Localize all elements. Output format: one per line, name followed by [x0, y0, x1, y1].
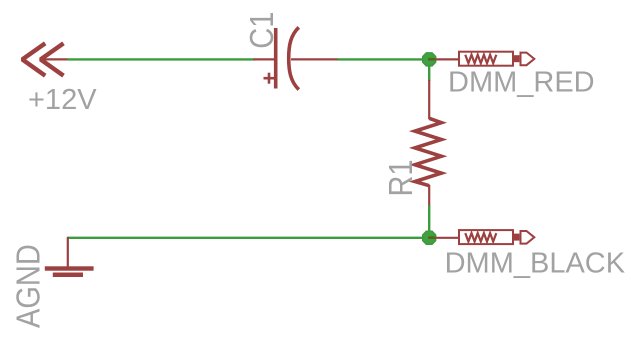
connector DMM_RED	[459, 52, 534, 66]
svg-text:R1: R1	[382, 159, 419, 196]
pin wire to DMM_BLACK	[436, 237, 459, 239]
svg-text:AGND: AGND	[10, 244, 47, 328]
wire net N$1 left segment	[67, 58, 255, 60]
wire net N$1 right segment	[338, 58, 425, 60]
wire net GND segment	[68, 237, 424, 239]
junction node top	[423, 53, 436, 66]
connector DMM_BLACK	[459, 230, 534, 244]
wire junction to resistor top	[428, 64, 430, 81]
wire resistor bottom to junction	[428, 206, 430, 234]
resistor R1	[415, 80, 442, 207]
ground symbol AGND	[45, 237, 94, 277]
svg-text:C1: C1	[243, 12, 280, 49]
svg-text:+12V: +12V	[28, 84, 97, 116]
capacitor C1	[254, 27, 339, 89]
svg-text:DMM_RED: DMM_RED	[448, 66, 595, 98]
svg-text:DMM_BLACK: DMM_BLACK	[445, 247, 626, 279]
supply symbol +12V	[22, 43, 68, 75]
pin wire to DMM_RED	[436, 58, 459, 60]
junction node bottom	[423, 231, 436, 244]
